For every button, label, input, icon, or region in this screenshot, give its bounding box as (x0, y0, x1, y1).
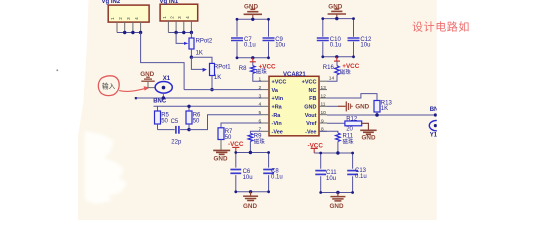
svg-text:+Ra: +Ra (272, 105, 283, 111)
svg-text:Vg IN2: Vg IN2 (102, 0, 121, 5)
svg-text:0.1u: 0.1u (355, 174, 367, 180)
Vg IN1 pin stubs (168, 21, 191, 33)
svg-text:R16: R16 (323, 65, 335, 71)
svg-text:22p: 22p (171, 139, 182, 145)
ground at X1 (140, 71, 155, 88)
resistor R13 (374, 101, 392, 116)
power +VCC right (334, 57, 360, 70)
node RPot2 bottom (190, 56, 193, 59)
node rails (321, 17, 355, 59)
pin numbers right 14-8 (321, 76, 335, 133)
wire to pin 5 (189, 115, 262, 130)
capacitor C5 22p (158, 119, 190, 145)
svg-text:0.1u: 0.1u (271, 174, 283, 180)
wire to RPot2 wiper (176, 33, 188, 45)
ferrite bead R16 (323, 61, 352, 81)
svg-text:+VCC: +VCC (302, 79, 317, 85)
ground above C7 C9 (244, 4, 262, 20)
svg-text:Va: Va (272, 88, 279, 94)
svg-text:VCA821: VCA821 (283, 72, 306, 78)
wire Va line to pin 2 (184, 89, 262, 91)
capacitor C12 10u (323, 37, 372, 57)
svg-text:RPot1: RPot1 (214, 64, 231, 70)
svg-text:Vref: Vref (306, 121, 317, 127)
capacitor C7 0.1u (231, 19, 269, 48)
svg-text:R7: R7 (225, 129, 233, 135)
svg-text:50: 50 (225, 135, 232, 141)
svg-text:R6: R6 (193, 112, 201, 118)
IC pin stubs left (262, 81, 269, 131)
svg-text:1K: 1K (381, 106, 388, 112)
IC pin labels (272, 79, 317, 135)
wire pin 6 to R7 (221, 123, 262, 128)
svg-text:50: 50 (193, 119, 200, 125)
svg-text:R9: R9 (254, 133, 262, 139)
svg-text:磁珠: 磁珠 (340, 68, 352, 76)
wire pin 9 to R12 (327, 122, 345, 124)
svg-text:4: 4 (259, 102, 262, 108)
svg-text:BNC: BNC (153, 99, 167, 105)
IC VCA821 (269, 72, 319, 136)
ground above C10 C12 (328, 4, 346, 19)
svg-text:GND: GND (362, 135, 376, 142)
capacitor C9 10u (237, 37, 285, 58)
svg-text:3: 3 (259, 93, 262, 99)
ferrite bead R11 (319, 131, 354, 153)
BNC connector Y1 (429, 107, 444, 139)
node R13 bottom (375, 113, 437, 117)
svg-text:R8: R8 (239, 66, 247, 72)
wire RPot2 to RPot1 top (191, 57, 212, 63)
svg-text:GND: GND (243, 203, 257, 210)
svg-text:6: 6 (259, 118, 262, 124)
wire input line to pin 3 (135, 97, 262, 99)
scan edge white (437, 0, 550, 220)
svg-text:1K: 1K (214, 75, 221, 81)
svg-text:+VCC: +VCC (342, 63, 359, 70)
potentiometer RPot2 (189, 33, 213, 58)
wire +Ra line pin 4 (154, 105, 263, 107)
capacitor C6 10u (230, 153, 268, 181)
svg-text:Y1: Y1 (430, 132, 438, 138)
svg-text:13: 13 (321, 85, 327, 91)
svg-text:输入: 输入 (102, 81, 116, 90)
power +VCC left (250, 58, 276, 71)
svg-text:Vg IN1: Vg IN1 (160, 0, 179, 5)
resistor R6 (186, 106, 201, 129)
svg-text:10u: 10u (243, 175, 253, 181)
svg-text:磁珠: 磁珠 (256, 68, 268, 76)
X1 center stub (162, 93, 164, 98)
svg-text:10u: 10u (360, 43, 370, 49)
svg-text:+VCC: +VCC (272, 79, 287, 85)
wire pin 12 FB to R13 (327, 94, 377, 101)
junction dots (123, 31, 142, 34)
node X1 on input line (162, 96, 165, 99)
node R6 top (187, 105, 190, 108)
svg-text:RPot2: RPot2 (196, 39, 213, 45)
Vg IN2 pin stubs (117, 22, 141, 33)
svg-text:0.1u: 0.1u (330, 43, 342, 49)
node rails right pair (319, 151, 354, 194)
svg-text:50: 50 (161, 119, 168, 125)
svg-text:-Vee: -Vee (272, 130, 283, 136)
wire pin 10 Vout line (327, 114, 435, 116)
svg-text:Vout: Vout (305, 113, 317, 119)
svg-text:GND: GND (214, 156, 228, 163)
svg-text:10: 10 (321, 110, 327, 116)
white blob lower-left (85, 131, 127, 204)
connector Vg IN1 (160, 0, 198, 21)
pin numbers left 1-7 (259, 77, 262, 133)
svg-text:NC: NC (309, 88, 317, 94)
svg-text:10u: 10u (326, 176, 336, 182)
svg-text:+Vin: +Vin (272, 96, 284, 102)
wire bus Vg IN1 (168, 32, 191, 34)
IC pin stubs right (319, 81, 327, 131)
capacitor C13 0.1u (321, 168, 367, 193)
wire bus Vg IN2 (117, 32, 141, 34)
junction dots (174, 31, 193, 34)
resistor R7 (218, 128, 233, 141)
svg-text:设计电路如: 设计电路如 (412, 20, 470, 34)
svg-text:12: 12 (321, 93, 327, 99)
svg-text:磁珠: 磁珠 (254, 137, 266, 145)
svg-text:5: 5 (259, 110, 262, 116)
svg-text:GND: GND (355, 103, 369, 110)
svg-text:1K: 1K (196, 51, 203, 57)
ground at R12 (360, 123, 376, 141)
node RPot1 bottom on Va line (210, 88, 213, 91)
svg-text:-Vee: -Vee (305, 130, 316, 136)
node R6 bottom (187, 128, 190, 131)
svg-text:C5: C5 (171, 119, 179, 125)
node rails left pair (234, 151, 270, 194)
svg-text:GND: GND (330, 203, 344, 210)
svg-text:R12: R12 (346, 117, 358, 123)
ferrite bead R9 (248, 131, 265, 152)
connector Vg IN2 (102, 0, 150, 22)
svg-text:10u: 10u (275, 43, 285, 49)
ground under C11 C13 (330, 193, 346, 211)
capacitor C8 0.1u (236, 168, 283, 191)
node top rail (236, 18, 270, 60)
resistor R5 (155, 106, 170, 129)
svg-text:-Vin: -Vin (272, 121, 283, 127)
ferrite bead R8 (239, 62, 268, 81)
input annotation bubble (98, 76, 119, 96)
capacitor C11 10u (314, 153, 352, 182)
ground under C6 C8 (243, 192, 258, 210)
svg-text:X1: X1 (163, 76, 171, 82)
svg-text:0.1u: 0.1u (244, 43, 256, 49)
wire Vg IN2 to Va net (141, 33, 185, 90)
BNC connector X1 (153, 76, 172, 104)
wire pin 11 to cap/GND label (327, 101, 370, 111)
annotation arrow (119, 86, 150, 91)
svg-text:FB: FB (309, 96, 316, 102)
potentiometer RPot1 (210, 63, 232, 89)
svg-text:GND: GND (304, 105, 316, 111)
power -VCC right (308, 142, 324, 153)
svg-text:11: 11 (321, 102, 326, 108)
wire RPot2 node to RPot1 wiper (191, 57, 207, 72)
svg-text:9: 9 (321, 118, 324, 124)
svg-text:20: 20 (346, 126, 353, 132)
title annotation (412, 20, 470, 34)
svg-text:磁珠: 磁珠 (343, 138, 355, 146)
svg-text:-Ra: -Ra (272, 113, 282, 119)
resistor R12 (345, 117, 362, 133)
svg-text:2: 2 (259, 85, 262, 91)
speck (57, 70, 59, 72)
svg-text:R5: R5 (161, 112, 169, 118)
power -VCC left (228, 141, 244, 152)
capacitor C10 0.1u (317, 19, 354, 49)
ground under R7 (213, 140, 230, 163)
